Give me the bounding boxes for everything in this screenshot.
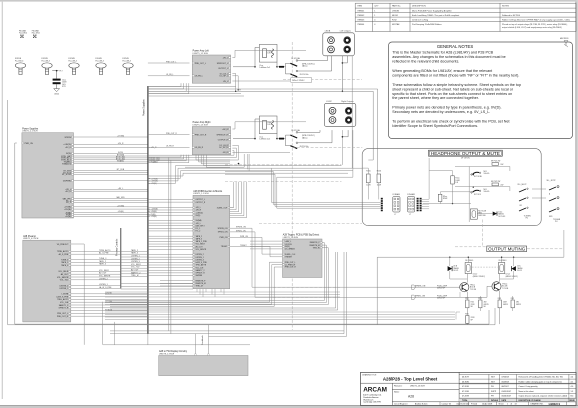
headphone title	[429, 150, 503, 156]
svg-text:100-0%: 100-0%	[484, 191, 490, 193]
svg-text:Contact Tel: Contact Tel	[442, 403, 452, 406]
svg-text:This is the Master Schematic f: This is the Master Schematic for A28 (L9…	[392, 51, 493, 55]
svg-text:VOL_TD2: VOL_TD2	[131, 267, 139, 269]
svg-text:L981/T1_2.1 SCH: L981/T1_2.1 SCH	[22, 131, 38, 133]
ground symbol	[54, 89, 60, 92]
diode D1xx	[493, 212, 497, 216]
svg-text:0W125: 0W125	[503, 304, 508, 306]
wire	[148, 259, 193, 261]
svg-text:1.3: 1.3	[571, 391, 574, 393]
svg-text:0V(PWR): 0V(PWR)	[63, 181, 71, 183]
svg-text:Andrew Sutton: Andrew Sutton	[415, 403, 427, 406]
wire	[74, 161, 148, 163]
svg-text:L981/C1: L981/C1	[549, 402, 561, 406]
wire	[71, 298, 148, 300]
svg-text:Left Outputs: Left Outputs	[340, 30, 351, 33]
muting relay RL8/1B4O	[498, 263, 504, 274]
svg-text:01/05/2007: 01/05/2007	[502, 391, 511, 393]
svg-text:LISTEN_2: LISTEN_2	[59, 285, 68, 287]
svg-text:TPRE_AUTO: TPRE_AUTO	[99, 249, 111, 252]
muting top rail	[377, 256, 564, 258]
svg-text:NF: NF	[484, 306, 486, 308]
svg-text:TAPE_2: TAPE_2	[196, 235, 203, 238]
relay RL1/1C4A with fuse	[279, 66, 284, 68]
svg-text:DC_SP_L: DC_SP_L	[220, 76, 228, 78]
svg-text:PRE_OUT_L: PRE_OUT_L	[166, 61, 177, 63]
wire	[71, 264, 121, 266]
svg-text:TUNE_3: TUNE_3	[61, 259, 68, 261]
wire	[74, 159, 148, 161]
svg-text:SPKR1_ON: SPKR1_ON	[415, 296, 426, 298]
svg-text:Right Outputs: Right Outputs	[341, 100, 353, 103]
wire	[148, 272, 193, 274]
svg-text:TRIGET: TRIGET	[221, 246, 228, 248]
X-BRIL wire to front panel	[261, 237, 263, 254]
svg-text:10 Apr 2008: 10 Apr 2008	[482, 403, 492, 406]
svg-text:reflected in the relevant chil: reflected in the relevant child document…	[392, 60, 459, 64]
wire relay upper contact to left connector	[298, 60, 328, 62]
wire	[74, 201, 148, 203]
svg-text:LA W_S_PRE: LA W_S_PRE	[196, 261, 208, 264]
svg-text:TPBL_AV/TE: TPBL_AV/TE	[196, 264, 207, 267]
svg-text:VOL_TD2: VOL_TD2	[60, 280, 68, 282]
PA left DC wires wrap to 0V rail	[232, 73, 235, 75]
svg-text:SO-21: SO-21	[453, 270, 458, 272]
wires below power amp right to protection	[195, 155, 197, 160]
svg-text:LISTEN_2: LISTEN_2	[99, 278, 108, 280]
svg-text:L981/T5_1.1 SCH: L981/T5_1.1 SCH	[193, 193, 209, 195]
wire	[74, 212, 148, 214]
svg-text:+5V(B): +5V(B)	[151, 216, 157, 218]
svg-text:LS_FB_R: LS_FB_R	[166, 146, 174, 148]
wire	[160, 285, 193, 287]
svg-text:RL8/1B4O: RL8/1B4O	[499, 260, 508, 262]
muting zener diode right Z1/C	[511, 266, 516, 271]
svg-text:Power Supplies: Power Supplies	[143, 99, 146, 116]
svg-text:1: 1	[507, 404, 508, 406]
verticals dropping between blocks	[243, 154, 245, 167]
svg-text:R1/3: R1/3	[478, 298, 481, 300]
svg-text:R1/5: R1/5	[511, 298, 514, 300]
wire	[148, 235, 193, 237]
wire	[121, 262, 148, 264]
svg-text:Cambridge CB5 9PB: Cambridge CB5 9PB	[363, 401, 381, 404]
svg-text:A1_S_PRE: A1_S_PRE	[59, 253, 69, 256]
svg-text:SPKRS_ON: SPKRS_ON	[415, 285, 426, 287]
svg-text:A28/P28 - Top Level Sheet: A28/P28 - Top Level Sheet	[383, 377, 438, 382]
muting zener diode left Z1/B	[448, 266, 453, 271]
svg-text:Sheet: Sheet	[499, 403, 504, 406]
svg-text:ITEM01: ITEM01	[357, 10, 365, 12]
wire	[71, 304, 148, 306]
svg-text:47.2036: 47.2036	[462, 386, 469, 388]
wire	[74, 190, 148, 192]
svg-text:AV_OUT: AV_OUT	[99, 272, 107, 275]
svg-text:+8V_L: +8V_L	[222, 57, 228, 59]
headphone section boundary	[362, 149, 541, 226]
svg-text:Earth Lead Assy 70MM - This pa: Earth Lead Assy 70MM - This part is RoHS…	[412, 14, 460, 17]
svg-text:RL2/1C4A: RL2/1C4A	[291, 129, 300, 132]
svg-text:LISTEN_2: LISTEN_2	[131, 258, 140, 260]
muting relay RL7/1B4O	[465, 263, 471, 274]
svg-text:SAFETY_2: SAFETY_2	[131, 271, 140, 274]
svg-text:TAPE_2: TAPE_2	[131, 249, 138, 252]
svg-text:QTY: QTY	[374, 6, 379, 8]
svg-text:TPRE_AUTO: TPRE_AUTO	[57, 250, 69, 253]
svg-text:SUPP: SUPP	[491, 391, 497, 393]
wire	[148, 225, 193, 227]
svg-text:Removed 4 off handbag links LT: Removed 4 off handbag links LTR0060, I60…	[519, 377, 563, 379]
wire	[74, 173, 148, 175]
svg-text:+5V(B): +5V(B)	[65, 216, 71, 218]
svg-text:12/16 inch O-Ring: 12/16 inch O-Ring	[412, 19, 428, 21]
svg-text:(MFB-2 24VDC): (MFB-2 24VDC)	[473, 276, 486, 278]
svg-text:5V(NA): 5V(NA)	[196, 219, 202, 222]
svg-text:LS1/C: LS1/C	[326, 101, 332, 103]
wire	[148, 238, 193, 240]
svg-text:X-BRIL_CLK: X-BRIL_CLK	[285, 254, 296, 256]
wires power amp left pins going down-left loops	[148, 86, 181, 88]
front panel right loop wires	[322, 242, 324, 244]
svg-text:DRAWING NO.: DRAWING NO.	[531, 403, 544, 406]
svg-text:BT_3V.B: BT_3V.B	[117, 169, 125, 171]
display block top pins	[195, 354, 197, 356]
svg-text:+12V(B): +12V(B)	[64, 209, 71, 211]
svg-text:LS_FB_L: LS_FB_L	[166, 74, 174, 76]
listen rows to protection	[121, 283, 193, 285]
protection right wires loops down	[230, 207, 234, 209]
svg-text:1uH9mm 2x5: 1uH9mm 2x5	[259, 67, 270, 69]
svg-text:Fix-CSK-3: Fix-CSK-3	[42, 60, 50, 62]
svg-text:HEADPHONE OUTPUT & MUTE: HEADPHONE OUTPUT & MUTE	[431, 151, 500, 156]
svg-text:ok925 NF: ok925 NF	[437, 298, 446, 300]
svg-text:06/11/07: 06/11/07	[502, 386, 509, 388]
wire	[148, 222, 193, 224]
svg-text:AV_OUT: AV_OUT	[61, 273, 69, 276]
wire	[71, 250, 121, 252]
svg-text:(IF 1X719): (IF 1X719)	[461, 157, 470, 159]
svg-text:9V(D): 9V(D)	[196, 215, 201, 217]
wire	[148, 219, 193, 221]
wire relay lower contact to left connector white column	[331, 56, 333, 71]
svg-text:Secondary nets are denoted by: Secondary nets are denoted by underscore…	[392, 110, 490, 114]
svg-text:1082 9R6: 1082 9R6	[478, 215, 485, 217]
wire	[148, 267, 193, 269]
svg-text:Mains PCB A28 Power Supply Amp: Mains PCB A28 Power Supply Amp Amplifier	[412, 9, 452, 12]
svg-text:13: 13	[515, 404, 517, 406]
svg-text:Correct O-ring quantity: Correct O-ring quantity	[519, 385, 538, 388]
svg-text:05/04/2007: 05/04/2007	[502, 396, 511, 398]
svg-text:SPKROUT_L: SPKROUT_L	[217, 63, 228, 65]
svg-text:PWR_ON: PWR_ON	[25, 143, 34, 145]
wire	[74, 180, 148, 182]
svg-text:(MFB-2 24VDC): (MFB-2 24VDC)	[506, 276, 519, 278]
long drop from left connector	[351, 56, 353, 168]
bottom rails	[8, 324, 495, 326]
svg-text:SLL_JK/T/P: SLL_JK/T/P	[547, 180, 557, 182]
svg-text:9V(D): 9V(D)	[118, 152, 123, 154]
wire	[71, 287, 121, 289]
svg-text:TAPE_2: TAPE_2	[61, 261, 68, 264]
wire	[74, 155, 148, 157]
svg-text:-8V_L: -8V_L	[223, 81, 228, 83]
svg-text:DC_SP_R: DC_SP_R	[219, 147, 228, 149]
svg-text:PWR_ON: PWR_ON	[220, 237, 229, 239]
wire	[74, 146, 148, 148]
svg-text:+4.8V(D): +4.8V(D)	[63, 144, 71, 146]
svg-text:9V(AB1): 9V(AB1)	[117, 159, 125, 162]
wire	[148, 256, 193, 258]
svg-text:SPKR1_ON: SPKR1_ON	[218, 232, 228, 234]
svg-text:Fix-CSK-3: Fix-CSK-3	[69, 60, 77, 62]
wire	[160, 280, 193, 282]
svg-text:TAPE_2: TAPE_2	[99, 260, 106, 263]
svg-text:Pad Damping 15x8x2MM Rubber: Pad Damping 15x8x2MM Rubber	[412, 24, 442, 26]
pin strip black	[381, 198, 383, 200]
wire	[148, 227, 193, 229]
svg-text:SPKR1_ON: SPKR1_ON	[236, 230, 246, 232]
svg-text:9V(D): 9V(D)	[66, 153, 71, 155]
wire	[71, 315, 148, 317]
wire	[71, 293, 148, 295]
fan-out wires right of pin strips	[422, 198, 430, 200]
svg-text:Rubber O-Rings fitted over UPP: Rubber O-Rings fitted over UPPER HALF of…	[502, 18, 570, 21]
wire	[148, 264, 193, 266]
svg-text:LS_FB_R: LS_FB_R	[195, 147, 204, 149]
svg-text:L981/T5_1.3 SCH: L981/T5_1.3 SCH	[193, 124, 209, 126]
output muting label	[487, 246, 527, 252]
wire	[74, 206, 148, 208]
svg-text:L981/T8_1.3 SCH: L981/T8_1.3 SCH	[159, 353, 175, 355]
wire	[71, 276, 121, 278]
wires power amp right pins going down-left loops	[148, 156, 181, 158]
svg-text:+48V_L: +48V_L	[285, 241, 291, 243]
wire	[148, 246, 193, 248]
wire	[121, 250, 148, 252]
dashed separator horizontals	[283, 78, 362, 80]
svg-text:4.1: 4.1	[571, 381, 574, 383]
wires to power amp input pins	[148, 62, 190, 64]
wire	[148, 212, 193, 214]
svg-text:These schematics follow a simp: These schematics follow a simple heirarc…	[392, 83, 521, 87]
svg-text:RL1/1C4A: RL1/1C4A	[291, 57, 300, 60]
svg-text:46.3586: 46.3586	[462, 381, 469, 383]
wire	[148, 243, 193, 245]
svg-text:DRAWING TITLE: DRAWING TITLE	[362, 374, 377, 377]
wire	[148, 269, 193, 271]
headphone relay contacts	[471, 174, 472, 175]
svg-text:ISSUE: ISSUE	[570, 400, 576, 402]
svg-text:DC_SHASS: DC_SHASS	[285, 248, 295, 251]
svg-text:TAPE_3: TAPE_3	[196, 238, 203, 241]
wire	[74, 143, 148, 145]
svg-text:output shields (L106, L107) an: output shields (L106, L107) and amp/prea…	[502, 26, 562, 29]
svg-text:VOL_SELR: VOL_SELR	[131, 264, 141, 266]
wire	[121, 256, 148, 258]
wires relay to right connector	[298, 131, 320, 133]
svg-text:2Amax: 2Amax	[302, 65, 308, 68]
svg-text:RL7/1B4O: RL7/1B4O	[465, 260, 474, 262]
svg-text:Rubber rubber damping pads on: Rubber rubber damping pads on top of com…	[519, 380, 562, 383]
general notes box	[389, 42, 573, 139]
svg-text:R1/6: R1/6	[465, 314, 468, 316]
wire left connector black column down to 0V rail	[341, 56, 343, 92]
svg-text:+8V_R: +8V_R	[222, 129, 228, 131]
wire	[71, 279, 121, 281]
svg-text:TUNE_3: TUNE_3	[99, 258, 106, 260]
wire	[233, 138, 255, 140]
svg-text:07/04/08: 07/04/08	[502, 377, 509, 379]
wire	[148, 214, 193, 216]
wire	[148, 199, 193, 201]
svg-text:100R: 100R	[366, 185, 371, 187]
svg-text:When generating BOMs for L981/: When generating BOMs for L981/AY, ensure…	[392, 69, 492, 73]
headphone input resistors	[367, 174, 371, 183]
wire	[71, 301, 148, 303]
svg-text:Feedback: Feedback	[202, 334, 204, 345]
title block	[361, 372, 577, 405]
svg-text:DESCRIPTION: DESCRIPTION	[412, 6, 426, 8]
svg-text:24Pin-2 24VDC: 24Pin-2 24VDC	[292, 80, 305, 82]
wire	[71, 296, 148, 298]
output muting dashed boundary	[481, 220, 483, 247]
transistor TR1xx	[492, 282, 501, 291]
svg-text:SPKRS_ON: SPKRS_ON	[218, 228, 228, 230]
Power Supplies right-edge pins and wires to bus	[72, 136, 74, 138]
wire	[71, 285, 121, 287]
svg-text:NF P1/2 2W: NF P1/2 2W	[491, 161, 501, 163]
svg-text:100-0%: 100-0%	[484, 173, 490, 175]
svg-text:SPKRS: SPKRS	[64, 137, 71, 139]
relay RL2/1C4A with fuse	[279, 138, 284, 140]
svg-text:ITEM: ITEM	[357, 6, 362, 8]
svg-text:TAPE_2_PRE: TAPE_2_PRE	[196, 240, 208, 243]
wire	[121, 270, 148, 272]
svg-text:L7: L7	[394, 214, 396, 216]
svg-text:9V(AB4.3): 9V(AB4.3)	[62, 163, 71, 166]
svg-text:VOL_1LE: VOL_1LE	[60, 302, 69, 304]
svg-text:Fix-CSK-3: Fix-CSK-3	[123, 60, 131, 62]
long drop from right connector	[352, 130, 354, 177]
svg-text:VS_PREOUT: VS_PREOUT	[57, 244, 69, 246]
wire	[148, 274, 193, 276]
svg-text:AV_OUT: AV_OUT	[131, 269, 139, 272]
svg-text:TC1/1B: TC1/1B	[502, 288, 509, 290]
svg-text:0V(D): 0V(D)	[54, 93, 59, 95]
wire	[74, 136, 148, 138]
wire	[121, 259, 148, 261]
svg-text:LA W_S_PRE: LA W_S_PRE	[56, 295, 69, 298]
svg-text:P/L_2: P/L_2	[196, 231, 201, 233]
SPKRS_ON / PWR_ON wires to right	[230, 227, 252, 229]
svg-text:Primary power nets are denoted: Primary power nets are denoted by type i…	[392, 106, 501, 110]
svg-text:RLL_M/C/P: RLL_M/C/P	[518, 184, 528, 186]
wire	[148, 209, 193, 211]
svg-text:FID1/AB: FID1/AB	[19, 30, 27, 33]
svg-text:TC1/1B: TC1/1B	[470, 289, 477, 291]
wire	[71, 312, 148, 314]
svg-text:PRE_OUT_L: PRE_OUT_L	[195, 63, 206, 65]
svg-text:NF: NF	[471, 306, 473, 308]
svg-text:+17V(B): +17V(B)	[117, 205, 124, 207]
svg-text:LISTEN_1: LISTEN_1	[99, 284, 108, 286]
svg-text:L981/T1_2.5 SCH: L981/T1_2.5 SCH	[283, 237, 299, 239]
power supplies vertical bus	[147, 86, 149, 334]
wire	[71, 261, 121, 263]
wire	[52, 70, 58, 72]
wire	[74, 157, 148, 159]
svg-text:LS_FB_L: LS_FB_L	[195, 76, 203, 78]
bus-side nested horizontals below PA left	[148, 86, 236, 88]
svg-text:None in this sheet: None in this sheet	[519, 390, 535, 393]
svg-text:assemblies. Any changes to th: assemblies. Any changes to the schematic…	[392, 55, 505, 59]
svg-text:PRE_OUT_R: PRE_OUT_R	[195, 134, 207, 136]
svg-text:AV_OUT: AV_OUT	[196, 245, 204, 248]
PA right DC wires wrap	[232, 128, 235, 130]
svg-text:0827/AF: 0827/AF	[392, 23, 400, 26]
svg-text:P/L_2: P/L_2	[66, 202, 71, 204]
wire	[71, 253, 121, 255]
svg-text:Placed on top of: output relay: Placed on top of: output relays (RL7/1B,…	[502, 23, 568, 26]
svg-text:SPKROUT_R: SPKROUT_R	[216, 134, 228, 136]
outer loop wires right of front panel	[335, 252, 337, 308]
front panel left wires	[250, 240, 283, 242]
svg-text:2Amax: 2Amax	[302, 136, 308, 139]
svg-text:1/8: 1/8	[455, 182, 458, 184]
svg-text:ITEM03: ITEM03	[357, 19, 365, 21]
svg-text:05/03/08: 05/03/08	[502, 381, 509, 383]
svg-text:TAPE_3: TAPE_3	[61, 264, 68, 267]
svg-text:4R2: 4R2	[516, 302, 519, 304]
svg-text:ok925 NF: ok925 NF	[437, 288, 446, 290]
svg-text:L981/T1_13.SCH: L981/T1_13.SCH	[410, 385, 425, 387]
A28 Preamp right-edge pins	[69, 243, 71, 245]
wire	[74, 188, 148, 190]
svg-text:PRE_OUT_R: PRE_OUT_R	[166, 133, 177, 135]
wire	[148, 230, 193, 232]
wire	[74, 172, 148, 174]
svg-text:To perform an electrical rule: To perform an electrical rule check or s…	[392, 120, 509, 124]
headphone mute relay coil RL7	[470, 209, 477, 219]
svg-text:OUTPUT MUTING: OUTPUT MUTING	[488, 247, 526, 252]
wire	[121, 267, 148, 269]
svg-text:TREL_AUTO: TREL_AUTO	[57, 298, 69, 301]
svg-text:Fix-CSK-3: Fix-CSK-3	[15, 60, 23, 62]
svg-text:SAFETY_2: SAFETY_2	[196, 269, 205, 272]
svg-text:SPKRS_ON: SPKRS_ON	[236, 227, 246, 229]
long horizontals lower region	[105, 291, 340, 293]
svg-text:TRIGET: TRIGET	[240, 245, 247, 247]
svg-text:BT_3C.B2: BT_3C.B2	[62, 174, 71, 176]
svg-text:LISTEN_1: LISTEN_1	[59, 288, 68, 290]
svg-text:GPRIOT_R: GPRIOT_R	[59, 308, 69, 310]
svg-text:RL7/1C4: RL7/1C4	[474, 194, 481, 196]
svg-text:Fix-CSK-3: Fix-CSK-3	[96, 60, 104, 62]
protection block bottom pin drops	[196, 289, 198, 292]
SPKRS_ON input wires	[377, 286, 460, 288]
wire	[71, 273, 121, 275]
svg-text:Preamp Controls: Preamp Controls	[116, 238, 119, 256]
svg-text:M0101: M0101	[392, 15, 399, 17]
svg-text:1uH9mm 2x5: 1uH9mm 2x5	[259, 139, 270, 141]
svg-text:X-BRIL_OUT: X-BRIL_OUT	[217, 207, 228, 209]
wire	[121, 253, 148, 255]
headphone mid resistors	[451, 176, 455, 184]
wire	[160, 282, 193, 284]
wire	[74, 152, 148, 154]
svg-text:R1/2: R1/2	[465, 298, 468, 300]
wire	[74, 213, 148, 215]
